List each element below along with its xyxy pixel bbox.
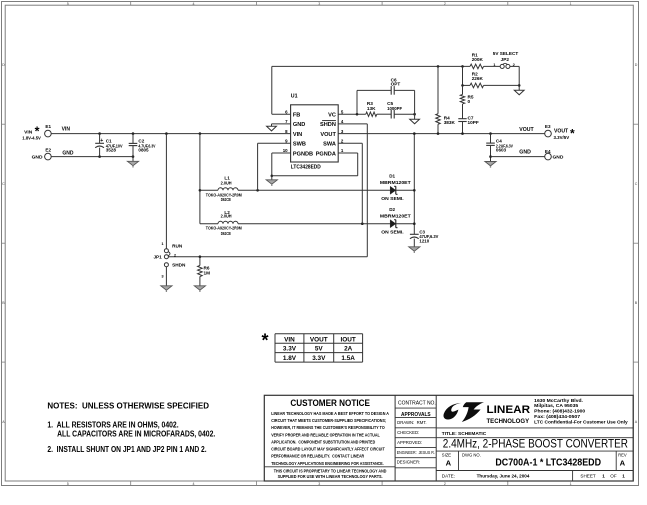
svg-text:0805: 0805 (138, 147, 149, 152)
svg-text:GND: GND (519, 150, 531, 156)
svg-text:D62CB: D62CB (221, 231, 232, 236)
svg-text:CONTRACT NO.: CONTRACT NO. (398, 401, 436, 407)
svg-text:1.8V-4.5V: 1.8V-4.5V (22, 135, 41, 140)
svg-text:VOUT: VOUT (310, 336, 328, 343)
svg-text:SUPPLIED FOR USE WITH LINEAR T: SUPPLIED FOR USE WITH LINEAR TECHNOLOGY … (278, 474, 383, 479)
svg-text:1M: 1M (204, 270, 211, 275)
svg-text:RMT.: RMT. (417, 420, 427, 425)
svg-text:OF: OF (610, 474, 617, 479)
svg-text:Fax: (408)434-0507: Fax: (408)434-0507 (534, 414, 581, 419)
svg-text:1.5A: 1.5A (341, 355, 355, 362)
svg-text:D: D (635, 63, 638, 67)
svg-text:VIN: VIN (62, 127, 71, 133)
svg-text:REV: REV (618, 453, 627, 458)
svg-text:JP1: JP1 (153, 254, 162, 259)
svg-text:SWA: SWA (323, 142, 336, 148)
svg-text:2.0UH: 2.0UH (221, 180, 233, 185)
svg-text:C: C (635, 182, 638, 186)
svg-text:ON SEMI.: ON SEMI. (381, 229, 403, 234)
svg-text:LTC3428EDD: LTC3428EDD (291, 165, 321, 171)
svg-text:VIN: VIN (293, 132, 302, 138)
svg-text:LTC Confidential-For Customer: LTC Confidential-For Customer Use Only (534, 419, 628, 424)
svg-text:ON SEMI.: ON SEMI. (381, 196, 403, 201)
svg-text:3.3V: 3.3V (283, 346, 297, 353)
svg-text:SHEET: SHEET (580, 474, 596, 479)
svg-text:SHDN: SHDN (172, 263, 186, 268)
svg-text:1.8V: 1.8V (283, 355, 297, 362)
svg-text:MBRM120ET: MBRM120ET (380, 213, 411, 218)
svg-text:THIS CIRCUIT IS PROPRIETARY TO: THIS CIRCUIT IS PROPRIETARY TO LINEAR TE… (274, 468, 387, 473)
svg-text:GND: GND (62, 151, 74, 157)
svg-text:5: 5 (67, 482, 69, 486)
svg-text:D: D (2, 63, 5, 67)
svg-text:2.0UH: 2.0UH (221, 214, 233, 219)
svg-text:4: 4 (193, 2, 195, 6)
svg-text:1: 1 (570, 482, 572, 486)
svg-text:2A: 2A (344, 346, 353, 353)
svg-text:GND: GND (32, 154, 43, 160)
svg-text:CIRCUIT THAT MEETS CUSTOMER-SU: CIRCUIT THAT MEETS CUSTOMER-SUPPLIED SPE… (271, 418, 386, 423)
svg-text:PERFORMANCE OR RELIABILITY. C: PERFORMANCE OR RELIABILITY. CONTACT LINE… (271, 454, 364, 459)
svg-text:4: 4 (193, 482, 195, 486)
svg-text:APPROVED:: APPROVED: (397, 440, 422, 445)
svg-text:E2: E2 (45, 147, 51, 152)
svg-text:VOUT: VOUT (320, 132, 336, 138)
svg-text:LINEAR: LINEAR (487, 404, 531, 416)
svg-text:SIZE: SIZE (442, 453, 452, 458)
svg-text:1: 1 (602, 474, 605, 479)
svg-text:Thursday, June 24, 2004: Thursday, June 24, 2004 (477, 474, 530, 479)
svg-text:E4: E4 (545, 149, 551, 154)
svg-text:GND: GND (293, 122, 305, 128)
svg-text:2: 2 (444, 482, 446, 486)
svg-text:D2: D2 (389, 207, 395, 212)
svg-text:PGNDA: PGNDA (316, 151, 336, 157)
svg-text:+: + (100, 138, 103, 144)
svg-text:APPROVALS: APPROVALS (401, 412, 431, 418)
svg-text:FB: FB (293, 113, 300, 119)
svg-text:CHECKED:: CHECKED: (397, 430, 419, 435)
svg-text:1210: 1210 (419, 239, 429, 244)
svg-text:D62CB: D62CB (221, 197, 232, 202)
svg-text:OPT: OPT (391, 82, 401, 87)
svg-text:MBRM120ET: MBRM120ET (380, 180, 411, 185)
svg-text:2: 2 (444, 2, 446, 6)
svg-text:5: 5 (67, 2, 69, 6)
svg-text:DC700A-1 * LTC3428EDD: DC700A-1 * LTC3428EDD (495, 457, 601, 468)
svg-text:VC: VC (328, 113, 336, 119)
svg-text:200K: 200K (472, 57, 484, 62)
svg-text:*: * (570, 126, 575, 140)
svg-text:DRAWN:: DRAWN: (397, 420, 414, 425)
svg-text:0603: 0603 (496, 148, 507, 153)
svg-text:HOWEVER, IT REMAINS THE CUSTOM: HOWEVER, IT REMAINS THE CUSTOMER’S RESPO… (271, 425, 385, 430)
svg-text:TECHNOLOGY APPLICATIONS ENGINE: TECHNOLOGY APPLICATIONS ENGINEERING FOR … (271, 461, 384, 466)
svg-text:RUN: RUN (172, 244, 183, 249)
svg-text:3.3V/5V: 3.3V/5V (554, 135, 570, 140)
svg-text:Milpitas, CA 95035: Milpitas, CA 95035 (534, 403, 578, 408)
svg-text:CUSTOMER NOTICE: CUSTOMER NOTICE (290, 398, 370, 408)
svg-text:C: C (2, 182, 5, 186)
svg-text:226K: 226K (472, 76, 484, 81)
svg-text:2. INSTALL SHUNT ON JP1 AND J: 2. INSTALL SHUNT ON JP1 AND JP2 PIN 1 AN… (47, 445, 206, 454)
svg-text:E3: E3 (545, 124, 551, 129)
svg-text:13K: 13K (367, 106, 376, 111)
svg-text:APPLICATION. COMPONENT SUBSTI: APPLICATION. COMPONENT SUBSTITUTION AND … (271, 439, 375, 444)
svg-text:SWB: SWB (293, 142, 306, 148)
svg-text:5V SELECT: 5V SELECT (493, 51, 519, 56)
svg-text:Phone: (408)432-1900: Phone: (408)432-1900 (534, 409, 585, 414)
svg-text:GND: GND (553, 154, 564, 160)
svg-text:D1: D1 (389, 174, 395, 179)
svg-text:5V: 5V (315, 346, 324, 353)
svg-text:DESIGNER:: DESIGNER: (397, 460, 421, 465)
svg-text:LINEAR TECHNOLOGY HAS MADE A B: LINEAR TECHNOLOGY HAS MADE A BEST EFFORT… (271, 411, 389, 416)
svg-text:SHDN: SHDN (320, 122, 336, 128)
svg-text:JP2: JP2 (501, 57, 510, 62)
svg-text:1630 McCarthy Blvd.: 1630 McCarthy Blvd. (534, 398, 583, 403)
svg-text:383K: 383K (444, 120, 456, 125)
svg-text:E1: E1 (45, 124, 51, 129)
svg-text:NOTES: UNLESS OTHERWISE SPECI: NOTES: UNLESS OTHERWISE SPECIFIED (47, 402, 209, 411)
svg-text:IOUT: IOUT (341, 336, 356, 343)
svg-text:PGNDB: PGNDB (293, 151, 313, 157)
svg-text:VERIFY PROPER AND RELIABLE OPE: VERIFY PROPER AND RELIABLE OPERATION IN … (271, 432, 380, 437)
svg-text:1000PF: 1000PF (387, 106, 402, 111)
svg-text:10PF: 10PF (468, 120, 479, 125)
svg-text:VOUT: VOUT (554, 129, 569, 135)
svg-text:DWG NO.: DWG NO. (462, 453, 481, 458)
svg-text:VOUT: VOUT (519, 127, 534, 133)
svg-text:VIN: VIN (284, 336, 295, 343)
svg-text:DATE:: DATE: (442, 474, 455, 479)
svg-text:A: A (446, 459, 452, 468)
svg-text:0: 0 (468, 99, 471, 104)
svg-text:TOKO-A920CY-2R0M: TOKO-A920CY-2R0M (206, 226, 242, 231)
svg-text:CIRCUIT BOARD LAYOUT MAY SIGNI: CIRCUIT BOARD LAYOUT MAY SIGNIFICANTLY A… (271, 447, 385, 452)
svg-text:3528: 3528 (106, 147, 117, 152)
svg-text:TITLE: SCHEMATIC: TITLE: SCHEMATIC (442, 431, 487, 437)
svg-text:ENGINEER: JESUS R.: ENGINEER: JESUS R. (397, 450, 435, 455)
svg-text:10: 10 (283, 148, 288, 153)
svg-text:1: 1 (570, 2, 572, 6)
svg-text:3.3V: 3.3V (312, 355, 326, 362)
svg-text:1. ALL RESISTORS ARE IN OHMS,: 1. ALL RESISTORS ARE IN OHMS, 0402. (47, 420, 178, 429)
svg-text:A: A (620, 459, 626, 468)
svg-text:1: 1 (622, 474, 625, 479)
svg-text:2.4MHz, 2-PHASE BOOST CONVERTE: 2.4MHz, 2-PHASE BOOST CONVERTER (443, 437, 628, 450)
svg-text:U1: U1 (291, 93, 298, 99)
svg-text:ALL CAPACITORS ARE IN MICROFAR: ALL CAPACITORS ARE IN MICROFARADS, 0402. (57, 430, 215, 439)
svg-text:3: 3 (318, 2, 320, 6)
svg-text:TECHNOLOGY: TECHNOLOGY (487, 419, 530, 425)
svg-text:3: 3 (318, 482, 320, 486)
svg-text:*: * (261, 330, 268, 350)
